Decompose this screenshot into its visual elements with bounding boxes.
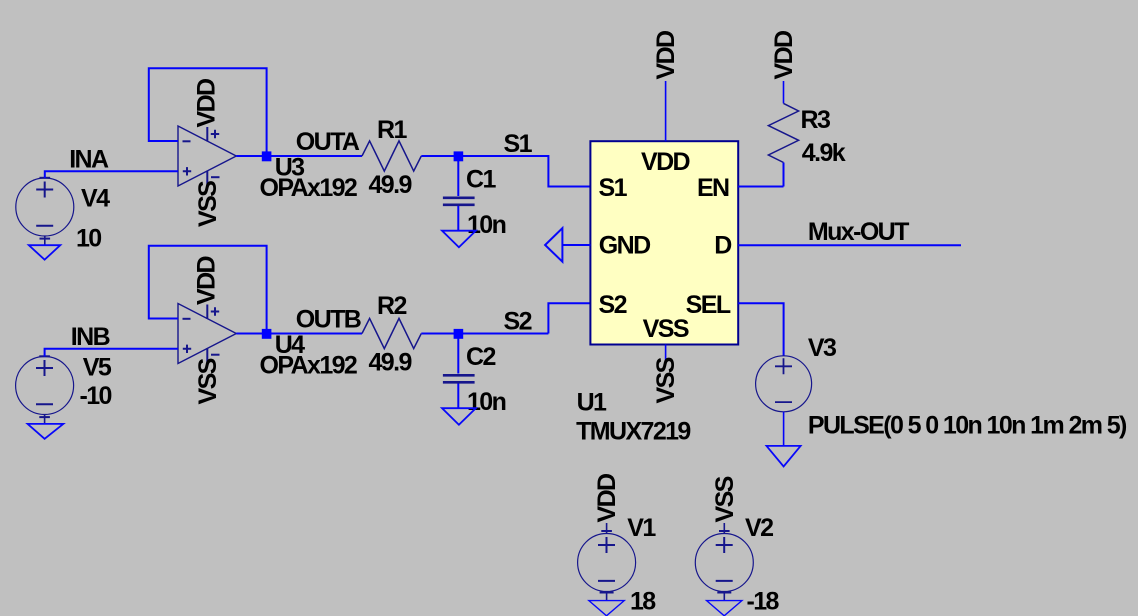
- wire GND arrow to mux: [562, 244, 590, 246]
- op-amp U4: [178, 304, 236, 364]
- svg-text:OPAx192: OPAx192: [260, 352, 357, 380]
- ground under V3: [767, 446, 801, 467]
- resistor R3: [783, 81, 785, 103]
- svg-text:10n: 10n: [467, 211, 506, 239]
- node OUTB: [262, 329, 272, 339]
- svg-text:OUTA: OUTA: [296, 128, 360, 156]
- capacitor C2: [457, 338, 459, 374]
- ground under V1: [589, 601, 624, 616]
- svg-text:VSS: VSS: [711, 476, 739, 522]
- GND input arrow at mux: [545, 228, 562, 262]
- voltage source V2: [695, 523, 753, 601]
- wire feedback U4: [149, 246, 267, 334]
- svg-text:S1: S1: [504, 130, 533, 158]
- wire D output Mux-OUT: [738, 244, 961, 246]
- wire EN to R3: [738, 186, 783, 188]
- ground under V5: [28, 424, 64, 439]
- wire feedback U3: [149, 68, 267, 156]
- svg-text:S2: S2: [599, 291, 627, 319]
- svg-text:C2: C2: [466, 343, 495, 371]
- svg-text:V5: V5: [83, 353, 112, 381]
- svg-text:R3: R3: [801, 106, 830, 134]
- svg-text:-18: -18: [747, 587, 780, 615]
- pin VSS wire (mux bottom): [665, 345, 667, 363]
- svg-text:VSS: VSS: [652, 357, 680, 403]
- resistor R1: [362, 141, 421, 171]
- ground under C1: [442, 231, 476, 248]
- svg-text:U1: U1: [577, 389, 607, 417]
- svg-text:VDD: VDD: [593, 474, 621, 523]
- voltage source V4: [16, 178, 74, 245]
- ground under V2: [707, 601, 742, 616]
- wire U3 output to R1: [236, 155, 362, 157]
- svg-text:R2: R2: [377, 292, 406, 320]
- svg-text:VDD: VDD: [192, 256, 220, 305]
- wire U4 output to R2: [236, 333, 362, 335]
- node OUTA: [262, 151, 272, 161]
- wire INA: V4 to U3 +input: [45, 171, 178, 178]
- svg-text:-10: -10: [80, 382, 112, 410]
- wire V3 to ground: [783, 412, 785, 446]
- svg-text:V3: V3: [808, 334, 836, 362]
- resistor R2: [362, 318, 421, 348]
- wire R2 to S2 bend: [421, 303, 590, 333]
- svg-text:VDD: VDD: [641, 148, 690, 176]
- svg-text:VDD: VDD: [770, 31, 798, 80]
- capacitor C1: [457, 161, 459, 197]
- node S2: [454, 329, 464, 339]
- svg-text:VDD: VDD: [192, 79, 220, 128]
- svg-text:INB: INB: [71, 323, 110, 351]
- svg-text:SEL: SEL: [686, 291, 731, 319]
- svg-text:49.9: 49.9: [369, 171, 412, 199]
- ground under V4: [29, 245, 61, 260]
- svg-text:18: 18: [630, 587, 656, 615]
- svg-text:S2: S2: [504, 308, 532, 336]
- svg-text:TMUX7219: TMUX7219: [576, 418, 690, 446]
- svg-text:49.9: 49.9: [369, 349, 412, 377]
- voltage source V1: [578, 523, 636, 601]
- svg-text:10: 10: [76, 225, 101, 253]
- svg-text:V2: V2: [745, 514, 773, 542]
- pin VDD wire (mux top): [665, 81, 667, 141]
- ground under C2: [442, 408, 476, 425]
- svg-text:V1: V1: [627, 514, 656, 542]
- svg-text:C1: C1: [466, 166, 496, 194]
- svg-text:VDD: VDD: [652, 31, 680, 80]
- wire INB: V5 to U4 +input: [45, 349, 178, 357]
- op-amp U3: [178, 126, 236, 186]
- svg-text:EN: EN: [697, 174, 729, 202]
- mux U1 TMUX7219: [590, 141, 738, 344]
- voltage source V3: [756, 356, 812, 412]
- svg-text:INA: INA: [69, 145, 109, 173]
- wire R1 to S1 bend: [421, 156, 590, 187]
- svg-text:R1: R1: [377, 116, 407, 144]
- svg-text:D: D: [714, 232, 731, 260]
- svg-text:Mux-OUT: Mux-OUT: [808, 218, 909, 246]
- svg-text:VSS: VSS: [194, 358, 222, 404]
- wire SEL to V3: [738, 303, 783, 356]
- svg-text:4.9k: 4.9k: [802, 139, 846, 167]
- svg-text:OPAx192: OPAx192: [260, 174, 357, 202]
- node S1: [454, 151, 464, 161]
- svg-text:GND: GND: [599, 232, 650, 260]
- wire C2 to ground: [457, 384, 459, 409]
- svg-text:OUTB: OUTB: [296, 306, 361, 334]
- voltage source V5: [16, 356, 74, 424]
- svg-text:V4: V4: [81, 185, 110, 213]
- svg-text:VSS: VSS: [194, 181, 222, 227]
- svg-text:PULSE(0 5 0 10n 10n 1m 2m 5): PULSE(0 5 0 10n 10n 1m 2m 5): [808, 412, 1127, 440]
- svg-text:VSS: VSS: [643, 315, 689, 343]
- svg-text:S1: S1: [599, 174, 628, 202]
- wire C1 to ground: [457, 206, 459, 231]
